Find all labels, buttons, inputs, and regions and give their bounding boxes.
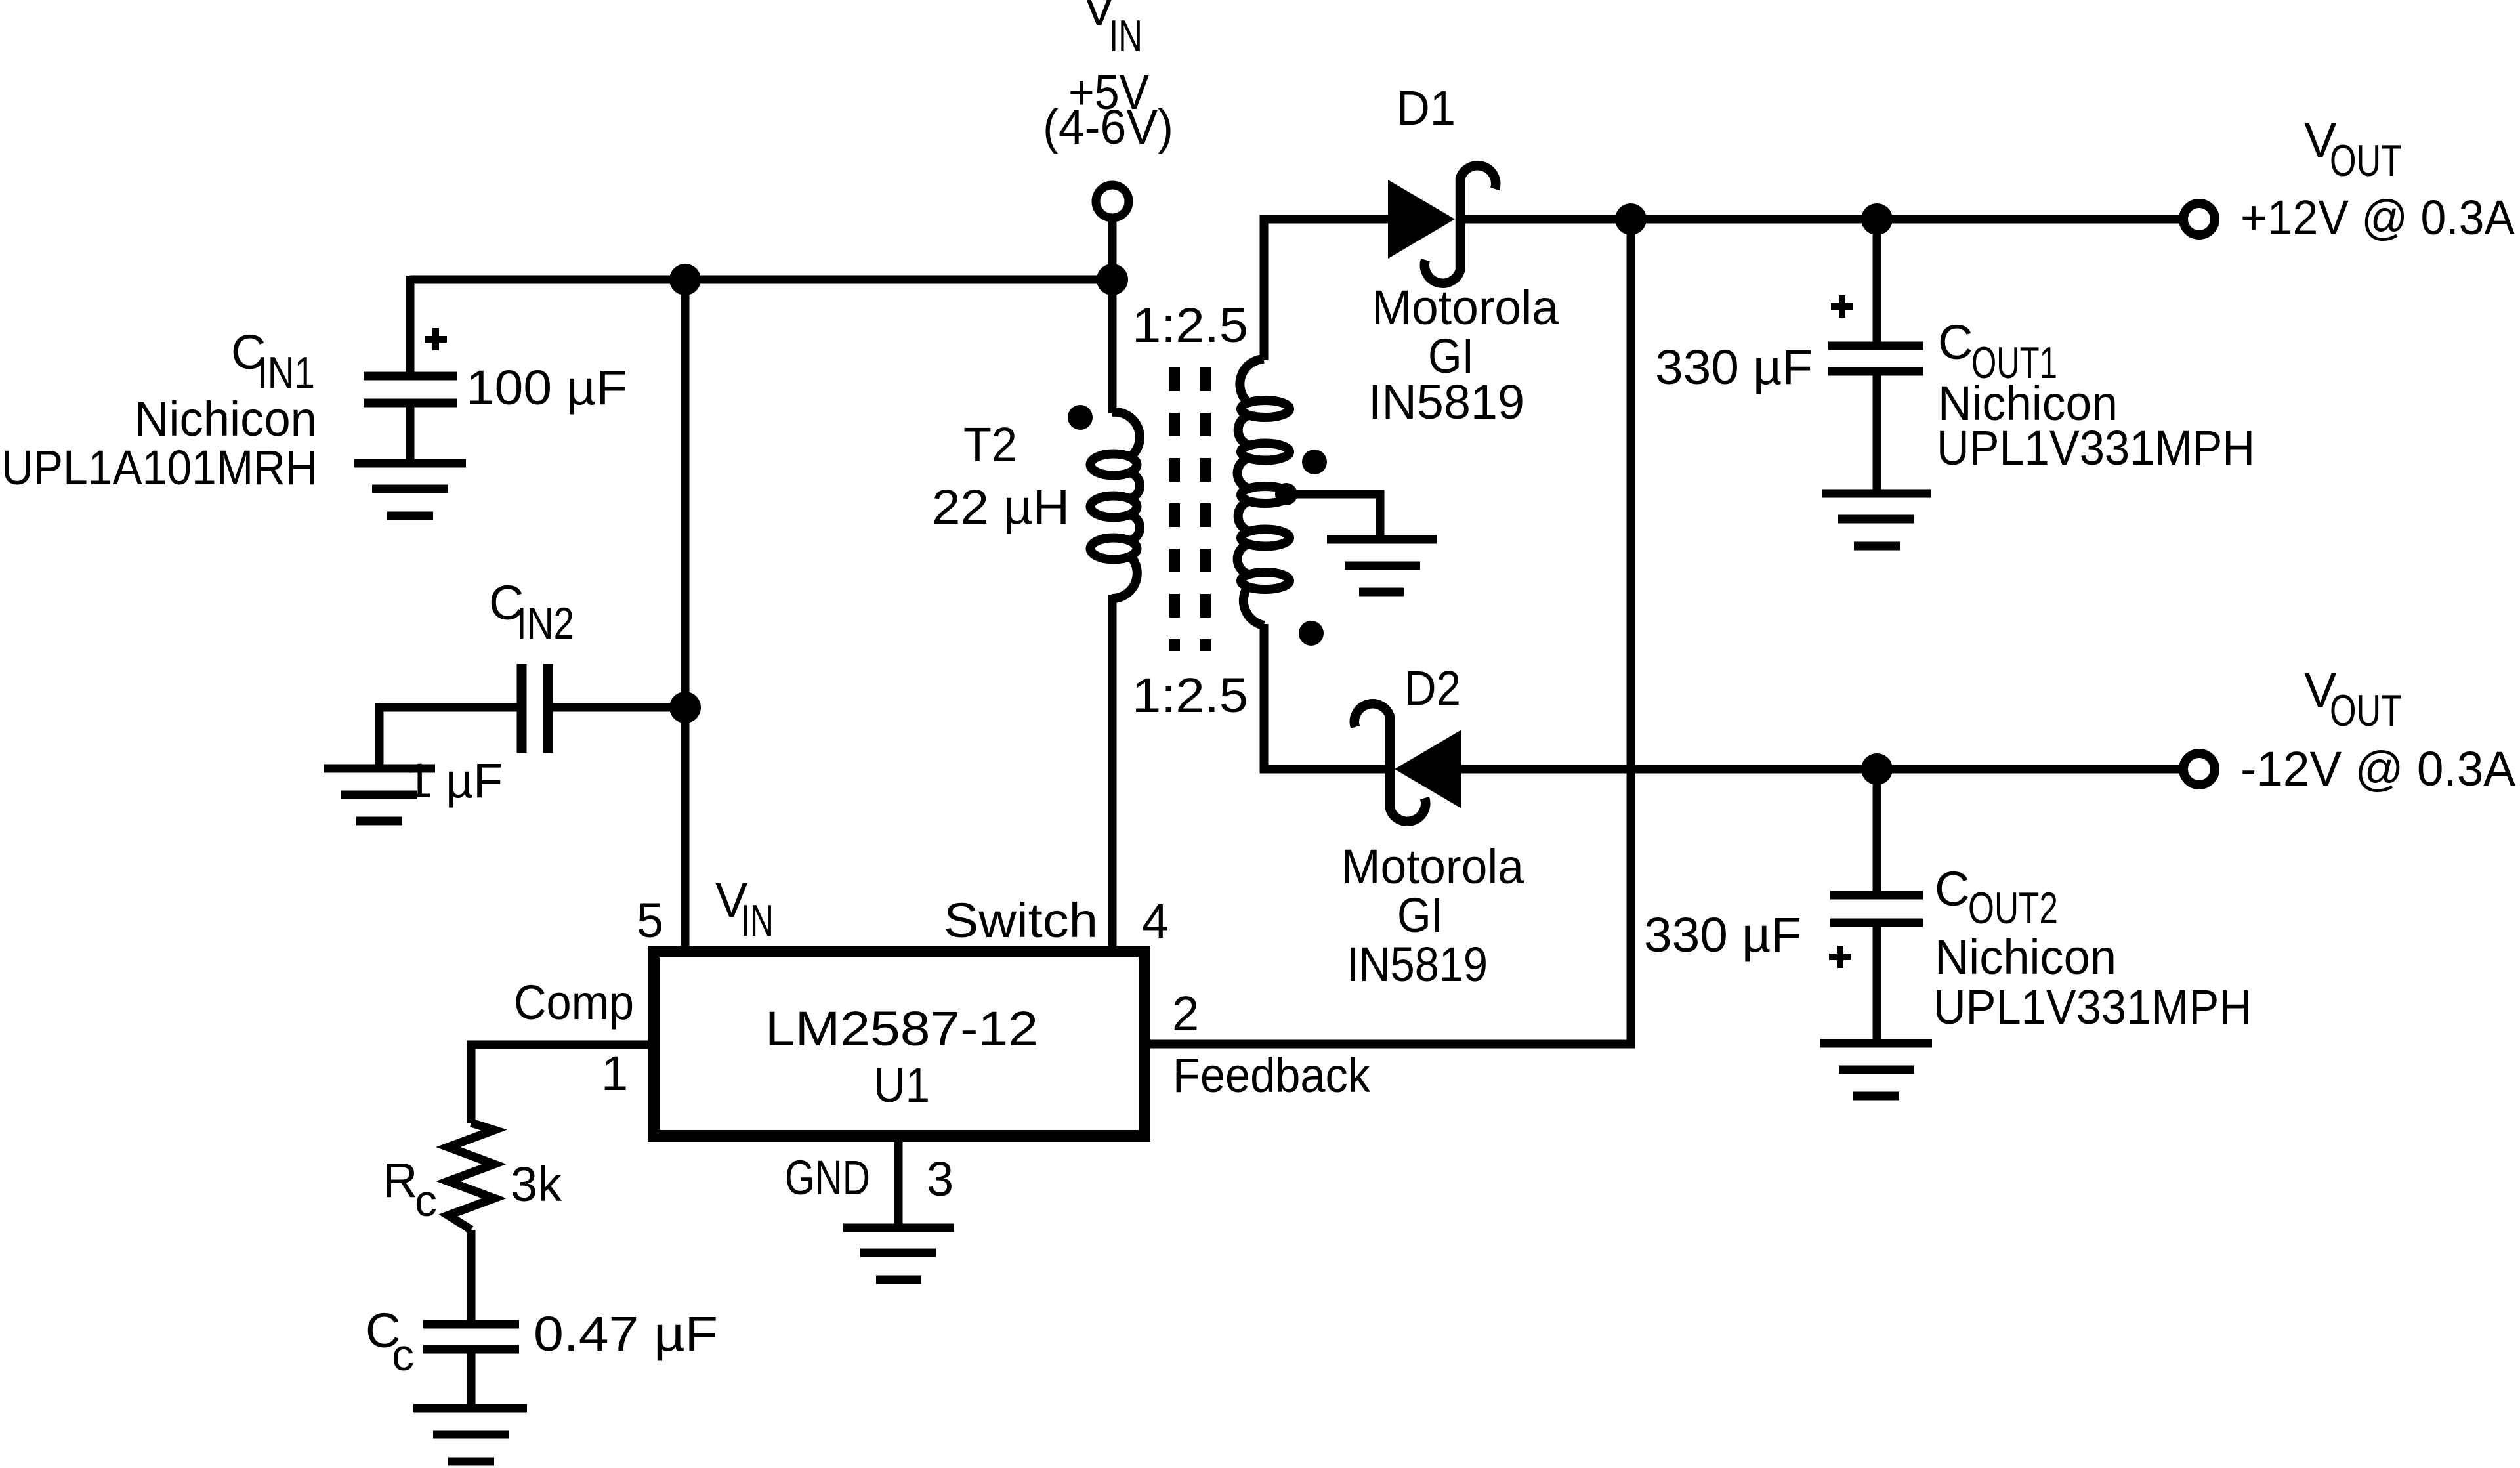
svg-text:GI: GI [1397,888,1443,942]
svg-text:IN: IN [741,896,774,946]
capacitor COUT2 [1829,895,1923,1039]
capacitor CIN2 [379,664,685,753]
svg-text:LM2587-12: LM2587-12 [765,1001,1038,1056]
svg-text:T2: T2 [963,417,1017,472]
transformer phase dot primary [1068,405,1093,430]
capacitor COUT1 [1828,295,1923,490]
capacitor Cc [423,1324,519,1404]
junction top rail / U1 Vin branch [669,264,701,295]
svg-text:100 µF: 100 µF [466,360,627,415]
label Cc [366,1303,414,1380]
svg-text:U1: U1 [873,1058,930,1112]
wire Rc to Cc [467,1230,476,1320]
svg-text:22 µH: 22 µH [932,480,1070,534]
svg-text:330 µF: 330 µF [1644,908,1801,962]
svg-text:Motorola: Motorola [1372,280,1559,335]
svg-text:4: 4 [1142,894,1169,948]
ground COUT2 [1820,1043,1932,1096]
svg-text:Nichicon: Nichicon [1935,930,2116,984]
wire transformer primary bottom to U1 Switch pin 4 [1108,595,1117,946]
junction +12V rail / COUT1 [1861,203,1893,235]
svg-text:Feedback: Feedback [1173,1048,1371,1102]
svg-text:OUT: OUT [2330,136,2402,186]
label VIN [1043,0,1173,154]
transformer center tap junction dot [1275,483,1297,505]
label T2 [932,417,1070,534]
junction CIN2 / U1 Vin branch [669,692,701,723]
svg-text:UPL1A101MRH: UPL1A101MRH [1,440,318,495]
svg-text:+12V @ 0.3A: +12V @ 0.3A [2240,190,2515,245]
wire center tap to ground [1286,494,1380,535]
label D2 part [1341,839,1524,992]
label COUT1 [1937,315,2255,475]
transformer phase dot secondary bottom [1299,621,1324,646]
svg-text:OUT2: OUT2 [1968,883,2058,933]
node +12V output terminal [2183,203,2215,235]
svg-text:(4-6V): (4-6V) [1043,100,1173,154]
svg-text:IN2: IN2 [516,598,574,648]
svg-text:R: R [383,1153,417,1207]
svg-text:Comp: Comp [514,975,634,1030]
svg-text:c: c [392,1330,414,1380]
inductor T2 secondary winding [1238,359,1290,625]
svg-text:IN5819: IN5819 [1347,937,1488,992]
wire D2 anode to -12V rail [1461,765,2183,774]
junction -12V rail / COUT2 [1861,753,1893,785]
resistor Rc [448,1123,494,1230]
wire COUT2 top [1873,769,1881,891]
label VOUT -12V [2240,663,2516,796]
ground U1 GND [843,1228,954,1280]
svg-text:IN1: IN1 [257,348,315,398]
svg-text:2: 2 [1172,986,1199,1041]
svg-text:Nichicon: Nichicon [135,392,317,446]
pin name VIN [715,873,774,946]
transformer core dashed lines [1175,367,1206,651]
wire top rail [410,276,1112,284]
wire secondary top to D1 [1264,219,1388,360]
wire secondary bottom to D2 [1264,624,1390,769]
wire COUT1 top [1873,219,1881,342]
wire rail corner down to CIN1 [406,276,415,372]
label CIN2 [489,576,574,648]
ground center tap [1327,539,1437,592]
ground CIN2 [324,768,435,821]
svg-text:IN: IN [1109,11,1143,61]
ground Cc [413,1408,527,1461]
svg-text:-12V @ 0.3A: -12V @ 0.3A [2240,742,2516,796]
svg-text:1:2.5: 1:2.5 [1132,668,1248,723]
label D1 part [1368,280,1559,429]
svg-text:C: C [1935,862,1969,916]
svg-text:0.47 µF: 0.47 µF [534,1307,718,1361]
label VOUT +12V [2240,113,2515,245]
ground CIN1 [354,463,466,516]
svg-text:D1: D1 [1396,81,1456,135]
diode D1 [1388,165,1496,283]
inductor T2 primary winding [1091,412,1140,598]
capacitor CIN1 [364,328,457,459]
wire transformer primary top [1108,280,1117,413]
wire U1 Vin vertical (pin 5) [681,280,690,946]
svg-text:GND: GND [785,1150,870,1205]
svg-text:5: 5 [637,893,663,948]
wire feedback vertical [1150,219,1631,1044]
wire VIN terminal to top rail [1108,218,1117,280]
diode D2 [1354,703,1461,821]
label U1 [765,1001,1038,1112]
svg-text:1: 1 [601,1046,628,1101]
junction +12V rail / feedback branch [1615,203,1647,235]
svg-text:1 µF: 1 µF [406,753,503,808]
wire CIN2 to ground [375,703,384,765]
svg-text:C: C [1938,315,1973,369]
svg-text:3k: 3k [511,1157,562,1211]
transformer phase dot secondary top [1302,450,1327,474]
wire GND pin 3 [894,1142,903,1224]
wire Comp pin 1 [471,1045,648,1123]
node -12V output terminal [2183,753,2215,785]
svg-text:UPL1V331MPH: UPL1V331MPH [1937,421,2255,475]
svg-text:Switch: Switch [944,893,1098,948]
wire D1 cathode to +12V rail [1463,215,2183,224]
junction top rail / transformer primary [1097,264,1128,295]
label COUT2 [1933,862,2252,1034]
svg-text:UPL1V331MPH: UPL1V331MPH [1933,980,2252,1034]
svg-text:OUT: OUT [2330,686,2402,736]
ground COUT1 [1822,493,1931,546]
svg-text:D2: D2 [1404,661,1461,715]
svg-text:1:2.5: 1:2.5 [1132,298,1248,352]
svg-text:Motorola: Motorola [1341,839,1524,894]
node VIN input terminal [1096,185,1129,218]
svg-text:3: 3 [927,1152,954,1206]
svg-text:IN5819: IN5819 [1368,375,1524,429]
op-amp U1 LM2587-12 box [654,952,1144,1136]
label CIN1 [1,325,318,495]
label Rc [383,1153,437,1226]
svg-text:330 µF: 330 µF [1655,340,1813,394]
svg-text:c: c [415,1176,437,1226]
